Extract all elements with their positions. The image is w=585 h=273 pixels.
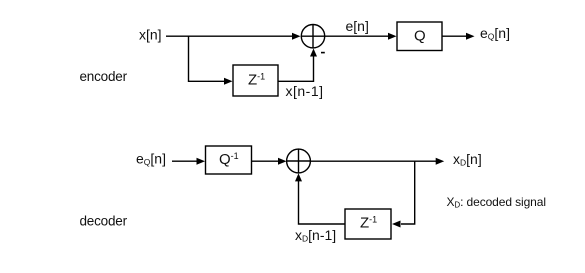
svg-text:encoder: encoder <box>80 69 128 84</box>
svg-text:Q: Q <box>414 28 426 45</box>
svg-text:eQ[n]: eQ[n] <box>136 151 166 168</box>
svg-text:x[n]: x[n] <box>139 27 162 43</box>
svg-text:xD[n]: xD[n] <box>453 151 482 168</box>
svg-text:eQ[n]: eQ[n] <box>480 25 510 42</box>
svg-text:e[n]: e[n] <box>346 18 369 34</box>
svg-text:XD: decoded signal: XD: decoded signal <box>447 195 546 210</box>
svg-text:decoder: decoder <box>80 214 128 229</box>
svg-text:x[n-1]: x[n-1] <box>286 83 324 99</box>
svg-text:xD[n-1]: xD[n-1] <box>295 227 336 244</box>
